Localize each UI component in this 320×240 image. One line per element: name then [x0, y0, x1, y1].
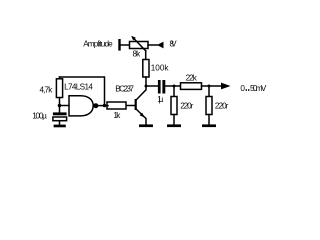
- svg-text:0: 0: [240, 84, 245, 93]
- svg-text:50mV: 50mV: [250, 84, 267, 93]
- svg-text:4,7k: 4,7k: [40, 85, 54, 94]
- svg-text:1k: 1k: [113, 111, 121, 120]
- svg-text:Amplitude: Amplitude: [83, 40, 113, 49]
- svg-text:100µ: 100µ: [32, 111, 47, 120]
- svg-text:1µ: 1µ: [157, 95, 163, 104]
- svg-text:100k: 100k: [151, 64, 170, 73]
- svg-text:220r: 220r: [180, 102, 193, 111]
- svg-text:L74LS14: L74LS14: [64, 82, 93, 91]
- svg-text:BC237: BC237: [115, 85, 134, 94]
- svg-text:8V: 8V: [169, 40, 177, 49]
- svg-text:8k: 8k: [133, 49, 142, 58]
- svg-text:22k: 22k: [186, 74, 198, 83]
- svg-text:220r: 220r: [215, 102, 229, 111]
